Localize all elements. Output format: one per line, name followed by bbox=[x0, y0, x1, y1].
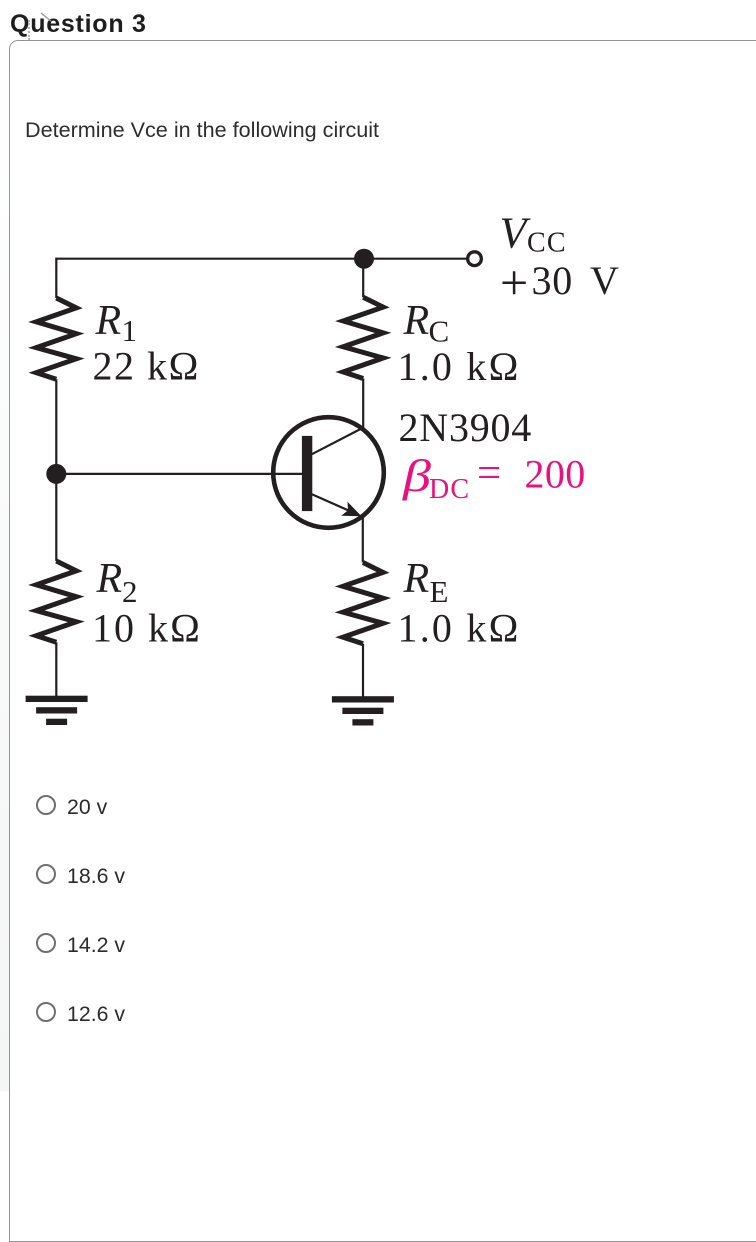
svg-text:1.0 kΩ: 1.0 kΩ bbox=[398, 605, 520, 650]
svg-text:V: V bbox=[590, 258, 620, 303]
svg-text:22 kΩ: 22 kΩ bbox=[93, 344, 200, 389]
svg-text:=: = bbox=[477, 450, 502, 497]
svg-text:CC: CC bbox=[527, 228, 567, 259]
svg-text:2N3904: 2N3904 bbox=[399, 405, 533, 450]
svg-text:β: β bbox=[402, 451, 433, 502]
svg-text:+: + bbox=[500, 254, 529, 310]
svg-text:1.0 kΩ: 1.0 kΩ bbox=[398, 344, 520, 389]
svg-text:R: R bbox=[403, 556, 431, 602]
svg-text:30: 30 bbox=[532, 258, 574, 303]
svg-text:200: 200 bbox=[525, 452, 587, 497]
svg-text:2: 2 bbox=[122, 574, 139, 609]
svg-text:R: R bbox=[96, 556, 124, 602]
svg-text:10 kΩ: 10 kΩ bbox=[92, 605, 201, 650]
svg-text:R: R bbox=[95, 298, 123, 344]
svg-text:DC: DC bbox=[429, 474, 470, 505]
svg-text:E: E bbox=[430, 574, 450, 609]
svg-text:R: R bbox=[403, 298, 431, 344]
